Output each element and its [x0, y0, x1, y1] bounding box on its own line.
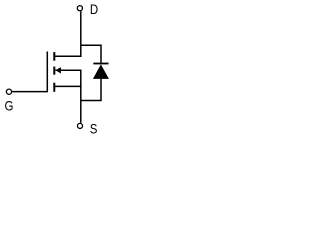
wire: gate lead from G terminal to gate line — [12, 91, 48, 93]
transistor Q1 (N-channel MOSFET) gate line — [46, 52, 48, 92]
terminal G (open circle) — [6, 89, 11, 94]
terminal D (open circle) — [77, 6, 82, 11]
wire: source vertical from body stub down to S terminal — [80, 70, 82, 123]
channel bar: source segment — [53, 83, 55, 92]
svg-text:D: D — [90, 1, 98, 17]
svg-text:G: G — [5, 97, 14, 113]
channel bar: drain segment — [53, 52, 55, 61]
terminal S (open circle) — [77, 123, 82, 128]
wire: diode anode down and left to source vertical — [81, 79, 101, 101]
wire: drain branch right to body diode cathode — [81, 45, 101, 63]
diode D1 cathode bar — [93, 63, 108, 65]
diode D1 anode triangle (points up) — [93, 64, 109, 79]
label D — [90, 1, 98, 17]
body arrow (points left toward channel) — [55, 67, 61, 73]
label S — [90, 121, 98, 137]
channel bar: body segment — [53, 67, 55, 75]
label G — [5, 97, 14, 113]
wire: bottom channel stub to source vertical — [55, 85, 82, 87]
svg-text:S: S — [90, 121, 98, 137]
wire: top channel stub to drain vertical — [55, 55, 82, 57]
wire: body stub from arrow to source vertical — [55, 69, 80, 71]
wire: drain vertical from D terminal down to top stub — [80, 11, 82, 57]
